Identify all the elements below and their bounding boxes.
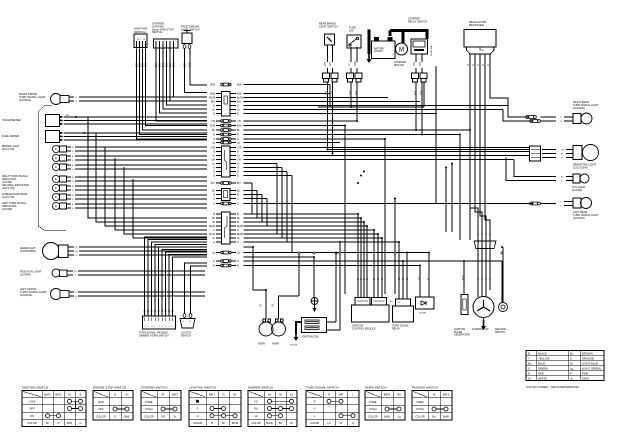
wire h y=155.5 bbox=[244, 155, 530, 157]
svg-text:G: G bbox=[213, 241, 215, 244]
inline bullet connectors bbox=[221, 120, 223, 123]
svg-text:E: E bbox=[55, 195, 57, 199]
svg-text:TURN SIGNAL SWITCH: TURN SIGNAL SWITCH bbox=[306, 386, 339, 390]
svg-text:(12V1.7W): (12V1.7W) bbox=[2, 186, 15, 190]
svg-text:BATTERY: BATTERY bbox=[374, 48, 385, 51]
wire h y=171.5 bbox=[244, 171, 288, 173]
wire h y=101.5 bbox=[244, 101, 421, 103]
lower inline connectors bbox=[221, 251, 223, 254]
wire h y=242 bbox=[244, 241, 400, 243]
svg-text:CONTROL MODULE: CONTROL MODULE bbox=[352, 327, 376, 330]
wire v x=385 bbox=[384, 139, 386, 294]
svg-text:Gr: Gr bbox=[406, 277, 409, 280]
wire from top switch x=184.5 bbox=[185, 49, 208, 93]
wire handlebar switch x=162 bbox=[162, 250, 207, 317]
svg-text:10A: 10A bbox=[349, 28, 354, 32]
svg-text:LO: LO bbox=[290, 392, 293, 396]
ignition control module bbox=[352, 305, 390, 322]
wire handlebar switch x=148 bbox=[148, 240, 207, 317]
wire h y=222 bbox=[244, 221, 365, 223]
svg-text:Br: Br bbox=[570, 351, 573, 355]
svg-text:COLOR: COLOR bbox=[415, 415, 424, 419]
svg-text:Y/R: Y/R bbox=[211, 120, 215, 123]
wire from top switch x=166.5 bbox=[167, 49, 208, 106]
wire v x=299 bbox=[298, 253, 300, 297]
starter motor M bbox=[396, 43, 408, 55]
svg-text:G: G bbox=[79, 421, 81, 425]
wire h y=261 bbox=[244, 260, 503, 262]
svg-text:COLOR: COLOR bbox=[27, 421, 36, 425]
svg-text:B: B bbox=[211, 421, 213, 425]
svg-text:Br: Br bbox=[237, 221, 240, 224]
wire h y=183 bbox=[244, 182, 253, 184]
svg-text:E: E bbox=[55, 186, 57, 190]
svg-text:Bu/W: Bu/W bbox=[237, 233, 244, 236]
wire h y=113.5 bbox=[244, 113, 437, 115]
wire meter jog x=88 bbox=[88, 117, 207, 218]
wire v x=267 bbox=[266, 199, 268, 227]
wire v x=374 bbox=[373, 230, 375, 298]
wire h y=139 bbox=[244, 138, 386, 140]
svg-text:COLOR: COLOR bbox=[368, 415, 377, 419]
svg-text:G: G bbox=[76, 101, 78, 103]
wire meter jog x=133 bbox=[133, 179, 207, 238]
color code table bbox=[526, 351, 604, 381]
svg-text:E: E bbox=[55, 156, 57, 160]
svg-text:RELAY: RELAY bbox=[392, 327, 400, 330]
wire v x=395 bbox=[394, 199, 396, 295]
wire meter jog x=124 bbox=[124, 167, 207, 234]
svg-text:B/W: B/W bbox=[210, 84, 215, 87]
svg-text:B/W: B/W bbox=[237, 84, 242, 87]
svg-text:RED: RED bbox=[538, 371, 544, 375]
svg-text:O: O bbox=[237, 229, 239, 232]
junction dots bbox=[252, 246, 254, 248]
svg-text:FREE: FREE bbox=[370, 400, 377, 404]
svg-text:Lg: Lg bbox=[570, 366, 574, 370]
svg-text:BLACK: BLACK bbox=[538, 351, 547, 355]
wire v x=460 bbox=[459, 135, 461, 241]
wire h y=218 bbox=[244, 217, 362, 219]
wire handlebar switch x=155 bbox=[155, 245, 207, 317]
wire h y=190.5 bbox=[244, 190, 258, 192]
svg-text:FREE: FREE bbox=[146, 400, 153, 404]
svg-text:ON: ON bbox=[30, 414, 34, 418]
wire v x=464 bbox=[463, 261, 465, 295]
wire h y=121 bbox=[244, 120, 358, 122]
svg-text:HORN: HORN bbox=[258, 343, 265, 346]
wire h y=109.5 bbox=[244, 109, 504, 111]
svg-text:HI: HI bbox=[255, 414, 258, 418]
svg-text:BLUE: BLUE bbox=[538, 361, 545, 365]
svg-text:R/W: R/W bbox=[355, 61, 357, 66]
small connector circles on verticals bbox=[298, 252, 300, 254]
wire h y=247 bbox=[244, 246, 254, 248]
wire from top switch x=136.5 bbox=[137, 49, 208, 140]
svg-text:G: G bbox=[213, 105, 215, 108]
svg-text:IG: IG bbox=[126, 392, 129, 396]
svg-text:PUSH: PUSH bbox=[416, 407, 423, 411]
svg-text:E: E bbox=[55, 177, 57, 181]
wire h y=230 bbox=[244, 229, 375, 231]
svg-text:Gr: Gr bbox=[154, 309, 157, 312]
neutral switch bbox=[499, 303, 508, 312]
wire h y=167.5 bbox=[244, 167, 283, 169]
svg-text:G: G bbox=[237, 260, 239, 263]
svg-text:Y/R: Y/R bbox=[414, 62, 416, 66]
svg-text:Y/W: Y/W bbox=[237, 147, 242, 150]
ground at ignition coil bbox=[295, 331, 297, 337]
wire h y=142.5 bbox=[244, 142, 341, 144]
svg-text:PUSH: PUSH bbox=[369, 407, 376, 411]
meter cluster outline bbox=[38, 105, 66, 230]
svg-text:Br/W: Br/W bbox=[384, 415, 390, 419]
svg-text:GENERATOR: GENERATOR bbox=[454, 334, 470, 337]
connector block 6P bbox=[222, 92, 231, 117]
wire v x=361 bbox=[360, 218, 362, 298]
svg-text:L/R: L/R bbox=[237, 159, 241, 162]
wire from top switch x=156 bbox=[156, 49, 207, 122]
connector 2P under starter relay bbox=[412, 73, 419, 79]
svg-text:G/Y: G/Y bbox=[325, 62, 327, 66]
wire v x=257 bbox=[256, 191, 258, 219]
svg-text:E: E bbox=[114, 392, 116, 396]
inline connector O bbox=[221, 202, 223, 205]
ground under battery bbox=[368, 53, 370, 59]
wire meter jog x=115 bbox=[115, 158, 207, 230]
inline connectors right side bbox=[526, 116, 529, 119]
svg-text:Br: Br bbox=[75, 271, 77, 273]
svg-text:HI: HI bbox=[279, 392, 282, 396]
svg-text:OFF: OFF bbox=[29, 407, 35, 411]
svg-text:(12V4W): (12V4W) bbox=[20, 273, 31, 277]
svg-text:R: R bbox=[314, 400, 316, 404]
ignition coil bbox=[302, 318, 327, 333]
svg-text:O: O bbox=[237, 171, 239, 174]
svg-text:OFF: OFF bbox=[98, 407, 104, 411]
svg-text:R: R bbox=[58, 421, 60, 425]
svg-text:G: G bbox=[213, 260, 215, 263]
wire handlebar switch x=151.5 bbox=[152, 242, 208, 316]
svg-text:O: O bbox=[213, 229, 215, 232]
svg-text:G: G bbox=[237, 198, 239, 201]
wire v x=429 bbox=[428, 253, 430, 294]
svg-text:G: G bbox=[114, 415, 116, 419]
svg-text:Bu: Bu bbox=[528, 361, 532, 365]
svg-text:WR: WR bbox=[339, 392, 343, 396]
svg-text:Y: Y bbox=[528, 356, 530, 360]
wire handlebar switch x=144.5 bbox=[145, 237, 208, 316]
svg-text:O: O bbox=[213, 171, 215, 174]
wire h y=175.5 bbox=[244, 175, 293, 177]
svg-text:Y/W: Y/W bbox=[210, 147, 215, 150]
wire v x=403 bbox=[402, 261, 404, 299]
connector block 8P lower bbox=[222, 212, 231, 244]
svg-text:P: P bbox=[570, 371, 572, 375]
wire v x=452 bbox=[451, 164, 453, 233]
svg-text:(12V4W): (12V4W) bbox=[572, 188, 582, 192]
svg-text:M: M bbox=[399, 48, 404, 54]
svg-text:Br: Br bbox=[46, 421, 49, 425]
wire from top switch x=139.5 bbox=[140, 49, 208, 135]
svg-text:Gr: Gr bbox=[398, 277, 401, 280]
svg-text:B/W: B/W bbox=[237, 125, 242, 128]
svg-text:E: E bbox=[55, 147, 57, 151]
svg-text:B/W: B/W bbox=[210, 93, 215, 96]
svg-text:PUSH: PUSH bbox=[145, 407, 152, 411]
svg-text:G/R: G/R bbox=[420, 62, 422, 66]
svg-text:P: P bbox=[197, 407, 199, 411]
svg-text:Bu: Bu bbox=[432, 415, 436, 419]
wire meter jog x=96 bbox=[96, 133, 207, 222]
wire v x=282 bbox=[281, 168, 283, 239]
svg-text:WHITE: WHITE bbox=[538, 376, 547, 380]
svg-text:G: G bbox=[428, 278, 430, 280]
svg-text:DIMMER, HORN SWITCH: DIMMER, HORN SWITCH bbox=[139, 334, 169, 337]
svg-text:B/G: B/G bbox=[211, 101, 215, 104]
wire h y=214 bbox=[244, 213, 359, 215]
svg-text:COLOR: COLOR bbox=[144, 415, 153, 419]
svg-text:SWITCH: SWITCH bbox=[134, 30, 146, 34]
ignition pulse generator bbox=[461, 295, 468, 315]
wire h y=130 bbox=[244, 129, 471, 131]
svg-text:Gr: Gr bbox=[157, 309, 160, 312]
svg-text:G: G bbox=[237, 241, 239, 244]
svg-text:(12V1.7W): (12V1.7W) bbox=[2, 195, 15, 199]
wire v x=470 bbox=[469, 130, 471, 240]
wire v x=367 bbox=[366, 226, 368, 298]
wire v x=364 bbox=[363, 222, 365, 298]
wire from top switch x=163 bbox=[163, 49, 207, 110]
svg-text:COLOR: COLOR bbox=[96, 415, 105, 419]
svg-text:MOTOR: MOTOR bbox=[394, 63, 404, 67]
wire from top switch x=142.5 bbox=[143, 49, 208, 131]
svg-text:LIGHT BLUE: LIGHT BLUE bbox=[582, 361, 598, 365]
svg-text:W: W bbox=[76, 247, 78, 249]
wire h y=265.5 bbox=[244, 265, 421, 267]
connector 2P under fuse bbox=[347, 73, 354, 79]
wire regulator to alternator 1 bbox=[470, 62, 478, 297]
svg-text:E: E bbox=[80, 392, 82, 396]
svg-text:B/W: B/W bbox=[67, 421, 72, 425]
svg-text:SWITCH: SWITCH bbox=[152, 30, 162, 34]
svg-text:Br: Br bbox=[213, 221, 216, 224]
wire v x=378 bbox=[377, 234, 379, 298]
wire h y=97.5 bbox=[244, 97, 389, 99]
svg-text:Br: Br bbox=[561, 177, 563, 179]
svg-text:FREE: FREE bbox=[417, 400, 424, 404]
wire v x=345 bbox=[344, 126, 346, 295]
wire from top switch x=170 bbox=[170, 49, 207, 102]
wire v x=382 bbox=[381, 238, 383, 298]
svg-text:Gr: Gr bbox=[143, 309, 146, 312]
connector block right side bbox=[530, 146, 541, 161]
wire v x=502 bbox=[501, 261, 503, 302]
svg-text:E: E bbox=[55, 204, 57, 208]
svg-text:E: E bbox=[55, 165, 57, 169]
svg-text:STARTER SWITCH: STARTER SWITCH bbox=[141, 386, 167, 390]
battery bbox=[372, 41, 396, 59]
svg-text:FUSE 30A: FUSE 30A bbox=[430, 45, 433, 56]
svg-text:G/Y: G/Y bbox=[330, 62, 332, 66]
svg-text:2POLE: 2POLE bbox=[290, 345, 298, 347]
wire h y=105.5 bbox=[244, 105, 509, 107]
svg-text:RECTIFIER: RECTIFIER bbox=[469, 23, 484, 27]
svg-text:RUN: RUN bbox=[98, 400, 104, 404]
wire handlebar switch x=172.5 bbox=[173, 257, 208, 316]
svg-text:RELAY SWITCH: RELAY SWITCH bbox=[408, 19, 427, 23]
svg-text:LIGHTING SWITCH: LIGHTING SWITCH bbox=[189, 386, 216, 390]
svg-text:BAT2: BAT2 bbox=[44, 392, 51, 396]
svg-text:(12V21W): (12V21W) bbox=[20, 293, 32, 297]
svg-text:HL: HL bbox=[233, 392, 237, 396]
svg-text:ENGINE STOP SWITCH: ENGINE STOP SWITCH bbox=[93, 386, 126, 390]
wire v x=287 bbox=[286, 172, 288, 243]
horn 1 bbox=[259, 322, 273, 336]
svg-text:ALTERNATOR: ALTERNATOR bbox=[472, 328, 489, 331]
svg-text:LOCK: LOCK bbox=[28, 400, 35, 404]
wire to horn 1 bbox=[244, 247, 267, 319]
svg-text:Gr: Gr bbox=[340, 421, 343, 425]
wire v x=340 bbox=[339, 242, 341, 330]
svg-text:(N): (N) bbox=[254, 407, 258, 411]
svg-text:G: G bbox=[237, 105, 239, 108]
svg-text:Gr: Gr bbox=[570, 376, 573, 380]
wire v x=277 bbox=[276, 164, 278, 235]
ground at alternator bbox=[483, 320, 485, 326]
wire h y=134.5 bbox=[244, 134, 461, 136]
battery thick cables bbox=[368, 30, 371, 55]
wire meter jog x=105 bbox=[105, 147, 207, 226]
svg-text:(12V1.7W): (12V1.7W) bbox=[2, 147, 15, 151]
svg-text:YELLOW: YELLOW bbox=[538, 356, 550, 360]
svg-text:PINK: PINK bbox=[582, 371, 589, 375]
wire h y=163.5 bbox=[244, 163, 278, 165]
svg-text:HI: HI bbox=[433, 392, 436, 396]
svg-text:SWITCH: SWITCH bbox=[495, 331, 505, 334]
svg-text:BAT1: BAT1 bbox=[209, 392, 216, 396]
alternator connector bbox=[474, 241, 496, 249]
wire from top switch x=159.5 bbox=[160, 49, 208, 114]
indicator lamp at y=158 bbox=[52, 154, 59, 161]
svg-text:N: N bbox=[314, 407, 316, 411]
wire h y=159.5 bbox=[244, 159, 515, 161]
svg-text:Bu/W: Bu/W bbox=[209, 233, 216, 236]
wire v x=314 bbox=[313, 257, 315, 298]
svg-text:B/Y: B/Y bbox=[237, 182, 241, 185]
svg-text:Gr: Gr bbox=[171, 309, 174, 312]
svg-text:Gr: Gr bbox=[147, 309, 150, 312]
svg-text:ORANGE: ORANGE bbox=[582, 356, 594, 360]
svg-text:Br: Br bbox=[222, 421, 225, 425]
svg-text:DIODE: DIODE bbox=[419, 313, 426, 315]
svg-text:Gr: Gr bbox=[150, 309, 153, 312]
svg-text:TACHOMETER: TACHOMETER bbox=[2, 118, 21, 122]
svg-text:W: W bbox=[528, 376, 531, 380]
svg-text:COLOR: COLOR bbox=[310, 421, 319, 425]
svg-text:B: B bbox=[174, 415, 176, 419]
svg-text:O: O bbox=[76, 292, 78, 294]
svg-text:ST: ST bbox=[161, 392, 165, 396]
svg-text:BAT3: BAT3 bbox=[172, 392, 179, 396]
svg-text:HL: HL bbox=[268, 392, 272, 396]
svg-text:Bu/W: Bu/W bbox=[237, 225, 244, 228]
wire v x=446 bbox=[445, 168, 447, 233]
wire h y=93.5 bbox=[244, 93, 331, 95]
svg-text:R: R bbox=[328, 392, 330, 396]
svg-text:COLOR: COLOR bbox=[193, 421, 202, 425]
wire h y=198.5 bbox=[244, 198, 268, 200]
wire regulator battery charge bbox=[485, 62, 490, 290]
spark plug bbox=[311, 298, 318, 305]
svg-text:LO: LO bbox=[254, 400, 257, 404]
svg-text:Y/R: Y/R bbox=[237, 120, 241, 123]
wire v x=399 bbox=[398, 242, 400, 299]
svg-text:IG: IG bbox=[68, 392, 71, 396]
wires from top connectors down bbox=[327, 82, 329, 150]
svg-text:Gr: Gr bbox=[402, 277, 405, 280]
svg-text:Bu/W: Bu/W bbox=[266, 421, 273, 425]
wire h y=252.5 bbox=[244, 252, 430, 254]
wire v x=252 bbox=[251, 183, 253, 214]
wire h y=125.5 bbox=[244, 125, 346, 127]
svg-text:B/W: B/W bbox=[125, 415, 130, 419]
svg-text:12V6AH: 12V6AH bbox=[374, 50, 383, 53]
svg-text:LIGHT GREEN: LIGHT GREEN bbox=[582, 366, 601, 370]
wire handlebar switch x=158.5 bbox=[159, 247, 208, 316]
svg-text:B/Y: B/Y bbox=[211, 182, 215, 185]
svg-text:BAT1: BAT1 bbox=[55, 392, 62, 396]
svg-text:G: G bbox=[213, 198, 215, 201]
svg-text:Bu/Y: Bu/Y bbox=[463, 275, 465, 280]
svg-text:Bu: Bu bbox=[279, 421, 283, 425]
wire handlebar switch x=165.5 bbox=[166, 252, 208, 316]
svg-text:Bu/W: Bu/W bbox=[209, 97, 216, 100]
wire v x=420 bbox=[419, 266, 421, 294]
connector block 3P bbox=[222, 189, 231, 201]
svg-text:HORN SWITCH: HORN SWITCH bbox=[365, 386, 387, 390]
svg-text:HORN: HORN bbox=[272, 343, 279, 346]
svg-text:Gr: Gr bbox=[168, 309, 171, 312]
wire handlebar switch x=169 bbox=[169, 255, 207, 317]
svg-text:Br: Br bbox=[561, 154, 563, 156]
clutch switch bbox=[185, 263, 208, 314]
svg-text:FUEL METER: FUEL METER bbox=[2, 134, 19, 138]
wires to right lamps bbox=[503, 110, 532, 122]
svg-text:B/G: B/G bbox=[237, 101, 241, 104]
svg-text:LIGHT SWITCH: LIGHT SWITCH bbox=[319, 24, 338, 28]
svg-text:R: R bbox=[528, 371, 530, 375]
svg-text:BAT2: BAT2 bbox=[443, 392, 450, 396]
svg-text:O: O bbox=[213, 203, 215, 206]
svg-text:Gr: Gr bbox=[161, 309, 164, 312]
svg-text:COLOR: COLOR bbox=[251, 421, 260, 425]
svg-text:O: O bbox=[76, 97, 78, 99]
svg-text:Bu/W: Bu/W bbox=[209, 225, 216, 228]
svg-text:HO: HO bbox=[397, 392, 401, 396]
svg-text:BROWN: BROWN bbox=[582, 351, 593, 355]
svg-text:PASSING SWITCH: PASSING SWITCH bbox=[412, 386, 438, 390]
svg-text:(12V21W): (12V21W) bbox=[573, 216, 585, 220]
svg-text:G: G bbox=[528, 366, 530, 370]
wire v x=292 bbox=[291, 176, 293, 253]
inline connector B/W bbox=[221, 83, 223, 86]
wire h y=147.5 bbox=[244, 147, 530, 149]
svg-text:(12V60/55W): (12V60/55W) bbox=[20, 249, 36, 253]
svg-text:SWITCH: SWITCH bbox=[181, 334, 191, 337]
connector 2P under rear brake switch bbox=[323, 73, 330, 79]
svg-text:Lb: Lb bbox=[570, 361, 574, 365]
